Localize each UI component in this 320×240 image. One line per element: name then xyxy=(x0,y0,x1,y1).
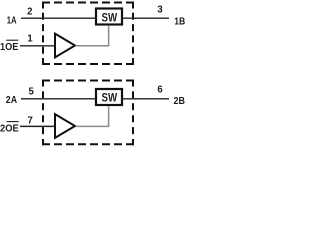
label 2OE with overline xyxy=(0,122,19,135)
wire 1B output xyxy=(123,17,170,19)
svg-text:2B: 2B xyxy=(174,96,186,107)
buffer U2 (2OE enable) xyxy=(55,114,75,138)
svg-text:7: 7 xyxy=(27,115,33,126)
wire 1OE input xyxy=(20,45,55,47)
svg-text:6: 6 xyxy=(157,85,163,96)
svg-text:2OE: 2OE xyxy=(0,123,19,134)
cell 2 dashed box xyxy=(42,80,134,146)
svg-text:2: 2 xyxy=(27,6,33,17)
svg-text:2A: 2A xyxy=(6,95,17,106)
svg-text:SW: SW xyxy=(102,11,118,25)
buffer U1 (1OE enable) xyxy=(55,34,75,58)
wire 2A input xyxy=(21,98,96,100)
label 1OE with overline xyxy=(0,40,19,53)
svg-text:1: 1 xyxy=(27,33,33,44)
svg-text:1OE: 1OE xyxy=(0,42,19,53)
svg-text:1B: 1B xyxy=(174,17,185,28)
wire 2B output xyxy=(123,98,170,100)
control wire from buffer U2 to SW2 xyxy=(76,106,109,126)
control wire from buffer U1 to SW1 xyxy=(76,26,109,46)
cell 1 dashed box xyxy=(42,2,134,66)
svg-text:3: 3 xyxy=(157,5,163,16)
switch SW2 xyxy=(96,89,122,105)
switch SW1 xyxy=(96,9,122,25)
svg-text:5: 5 xyxy=(29,86,35,97)
wire 2OE input xyxy=(20,125,55,127)
svg-text:SW: SW xyxy=(102,91,118,105)
wire 1A input xyxy=(21,17,96,19)
svg-text:1A: 1A xyxy=(7,15,17,26)
